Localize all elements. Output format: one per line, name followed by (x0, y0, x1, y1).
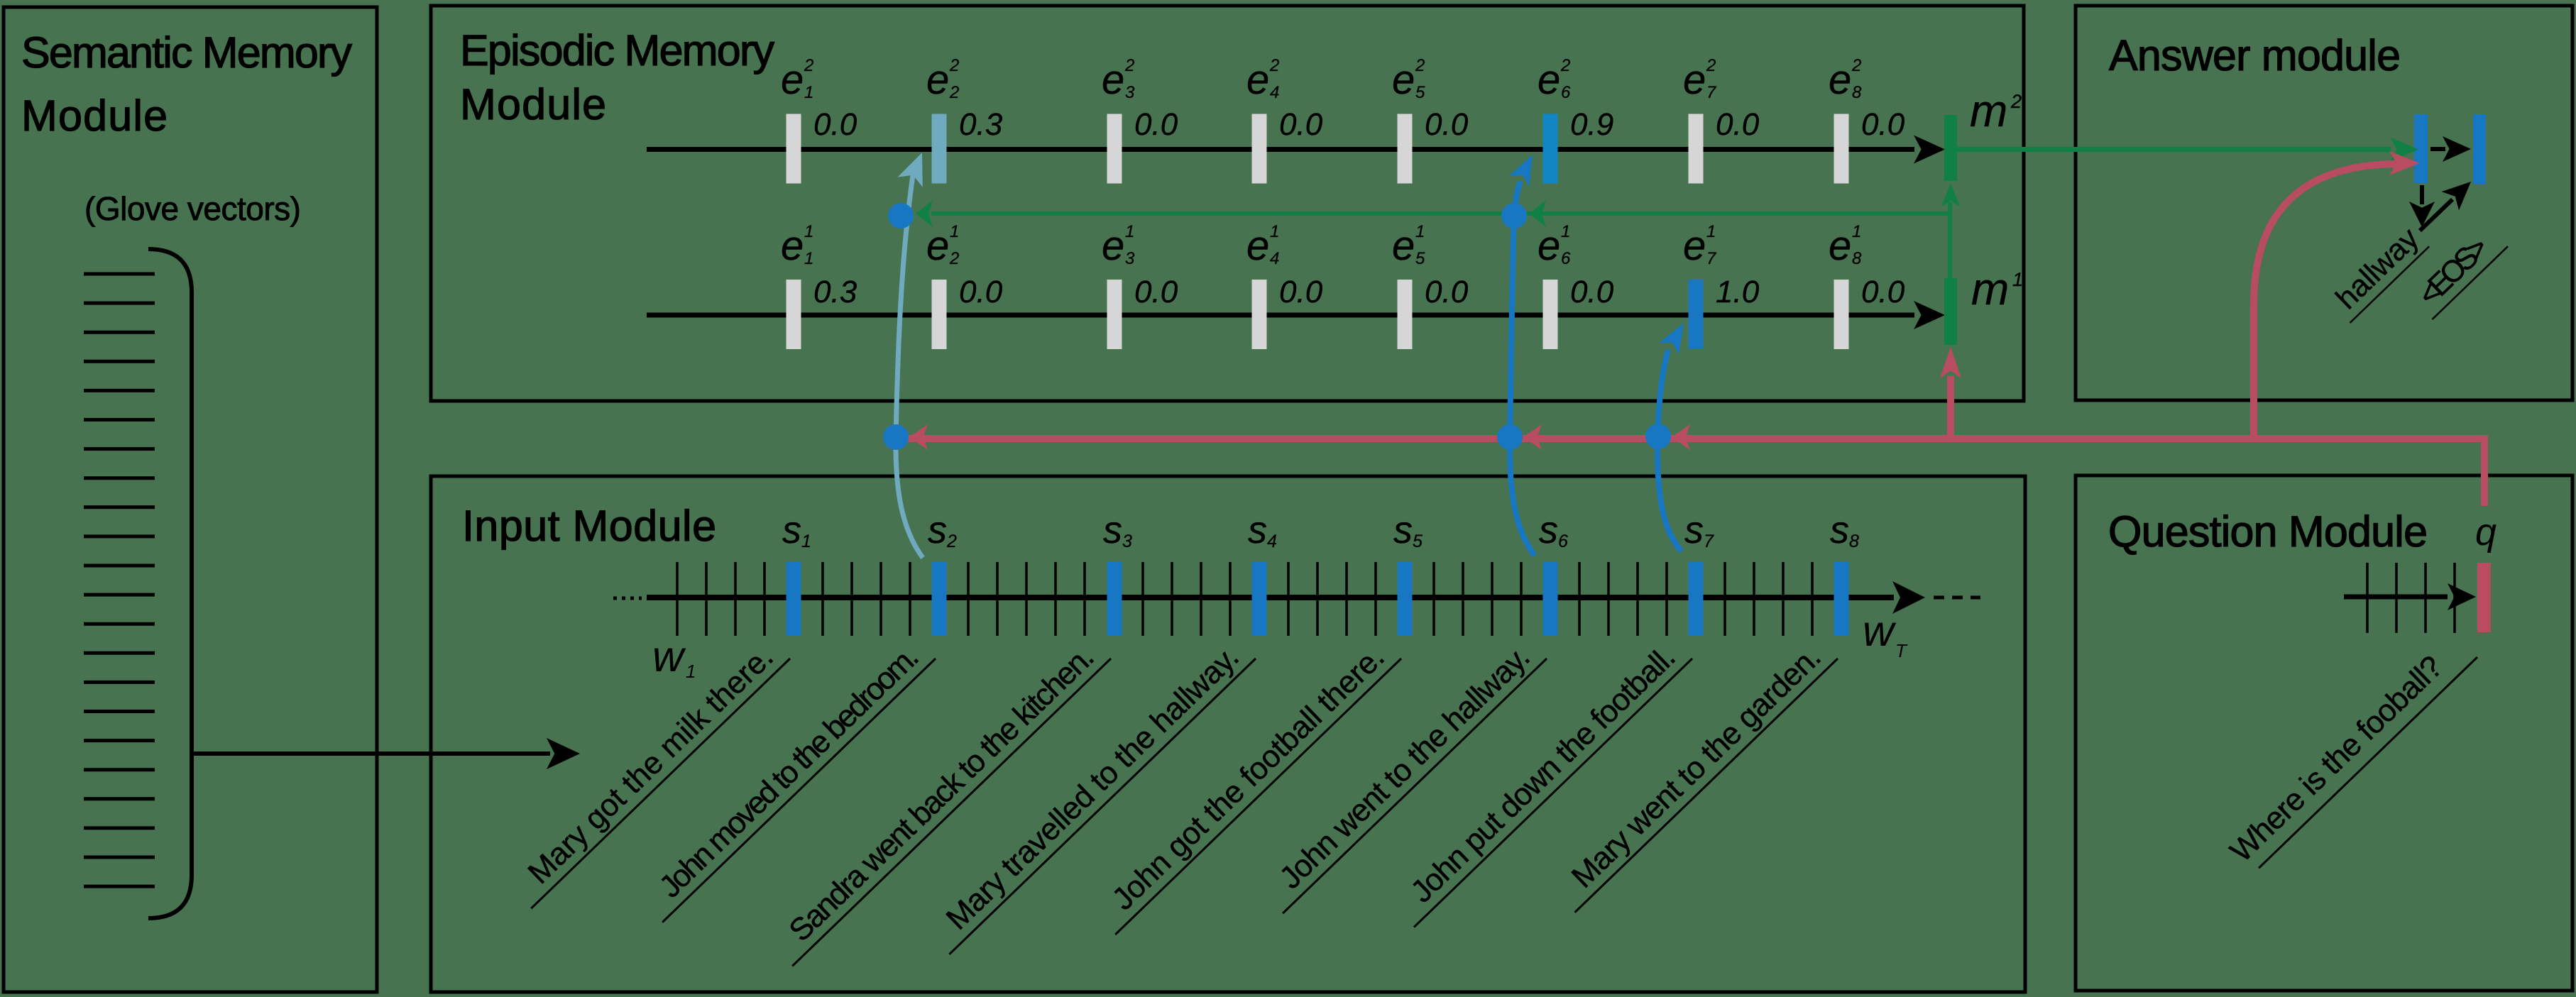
svg-text:Semantic Memory: Semantic Memory (21, 28, 353, 77)
svg-text:2: 2 (949, 56, 959, 75)
svg-text:3: 3 (1125, 249, 1135, 268)
svg-text:5: 5 (1415, 83, 1425, 102)
svg-text:2: 2 (2010, 91, 2022, 112)
svg-text:5: 5 (1415, 249, 1425, 268)
svg-text:3: 3 (1125, 83, 1135, 102)
svg-text:0.0: 0.0 (1570, 275, 1614, 309)
svg-text:Episodic Memory: Episodic Memory (460, 26, 775, 75)
svg-text:8: 8 (1852, 249, 1862, 268)
svg-text:e: e (1538, 223, 1560, 269)
svg-text:4: 4 (1267, 531, 1277, 551)
svg-text:1: 1 (1415, 222, 1425, 241)
svg-text:0.9: 0.9 (1570, 107, 1613, 142)
svg-text:1: 1 (804, 83, 813, 102)
svg-text:e: e (1829, 57, 1851, 103)
svg-text:3: 3 (1122, 531, 1132, 551)
svg-text:0.0: 0.0 (1425, 275, 1469, 309)
svg-text:7: 7 (1706, 249, 1717, 268)
svg-text:2: 2 (1415, 56, 1425, 75)
svg-text:0.0: 0.0 (959, 275, 1003, 309)
svg-text:Answer module: Answer module (2109, 31, 2401, 79)
svg-text:e: e (1246, 223, 1269, 269)
svg-text:e: e (1683, 223, 1706, 269)
svg-text:8: 8 (1849, 531, 1859, 551)
svg-text:e: e (926, 57, 949, 103)
svg-text:2: 2 (1269, 56, 1279, 75)
svg-text:0.0: 0.0 (1134, 107, 1178, 142)
svg-text:m: m (1971, 263, 2009, 314)
svg-text:6: 6 (1561, 83, 1571, 102)
svg-text:2: 2 (946, 531, 957, 551)
svg-text:6: 6 (1558, 531, 1568, 551)
svg-text:T: T (1895, 640, 1908, 661)
svg-text:s: s (928, 509, 947, 551)
svg-text:2: 2 (1851, 56, 1861, 75)
svg-text:2: 2 (1560, 56, 1570, 75)
svg-text:e: e (1392, 223, 1415, 269)
svg-text:4: 4 (1270, 83, 1279, 102)
svg-text:0.0: 0.0 (813, 107, 857, 142)
svg-text:e: e (1538, 57, 1560, 103)
svg-text:m: m (1970, 85, 2007, 136)
svg-text:2: 2 (804, 56, 813, 75)
svg-text:s: s (1393, 509, 1413, 551)
svg-text:1: 1 (1270, 222, 1279, 241)
svg-text:0.3: 0.3 (813, 275, 857, 309)
svg-text:1: 1 (804, 222, 813, 241)
svg-text:0.0: 0.0 (1716, 107, 1760, 142)
svg-text:s: s (1684, 509, 1704, 551)
svg-text:7: 7 (1704, 531, 1714, 551)
svg-text:0.0: 0.0 (1425, 107, 1469, 142)
svg-text:6: 6 (1561, 249, 1571, 268)
svg-text:e: e (1683, 57, 1706, 103)
svg-text:1: 1 (1706, 222, 1716, 241)
svg-text:e: e (781, 223, 804, 269)
svg-text:w: w (652, 632, 686, 681)
svg-text:0.0: 0.0 (1279, 107, 1323, 142)
svg-text:0.0: 0.0 (1279, 275, 1323, 309)
svg-text:e: e (1246, 57, 1269, 103)
svg-text:1: 1 (686, 661, 696, 682)
svg-text:0.0: 0.0 (1861, 275, 1905, 309)
svg-text:(Glove vectors): (Glove vectors) (84, 190, 301, 227)
svg-text:s: s (1830, 509, 1849, 551)
svg-text:0.0: 0.0 (1861, 107, 1905, 142)
svg-text:e: e (1102, 223, 1124, 269)
svg-text:w: w (1863, 607, 1897, 655)
svg-text:Input Module: Input Module (462, 502, 716, 550)
svg-text:5: 5 (1413, 531, 1423, 551)
svg-text:e: e (781, 57, 804, 103)
svg-text:2: 2 (949, 83, 959, 102)
svg-text:1: 1 (804, 249, 813, 268)
svg-text:2: 2 (1706, 56, 1716, 75)
svg-text:4: 4 (1270, 249, 1279, 268)
svg-text:e: e (1102, 57, 1124, 103)
svg-text:1: 1 (2012, 269, 2023, 290)
svg-text:s: s (782, 509, 801, 551)
svg-text:0.3: 0.3 (959, 107, 1003, 142)
svg-text:1.0: 1.0 (1716, 275, 1760, 309)
svg-text:s: s (1248, 509, 1267, 551)
svg-text:s: s (1103, 509, 1122, 551)
svg-text:Question Module: Question Module (2108, 507, 2428, 556)
svg-text:1: 1 (1561, 222, 1570, 241)
svg-text:7: 7 (1706, 83, 1717, 102)
svg-text:Module: Module (21, 92, 168, 140)
svg-text:1: 1 (1852, 222, 1861, 241)
svg-text:Module: Module (460, 80, 606, 128)
svg-text:q: q (2475, 511, 2496, 553)
svg-text:s: s (1539, 509, 1558, 551)
svg-text:2: 2 (1124, 56, 1134, 75)
svg-text:e: e (926, 223, 949, 269)
svg-text:2: 2 (949, 249, 959, 268)
svg-text:e: e (1829, 223, 1851, 269)
svg-text:0.0: 0.0 (1134, 275, 1178, 309)
svg-text:e: e (1392, 57, 1415, 103)
svg-text:1: 1 (950, 222, 959, 241)
svg-text:1: 1 (801, 531, 811, 551)
svg-text:8: 8 (1852, 83, 1862, 102)
svg-text:1: 1 (1125, 222, 1134, 241)
